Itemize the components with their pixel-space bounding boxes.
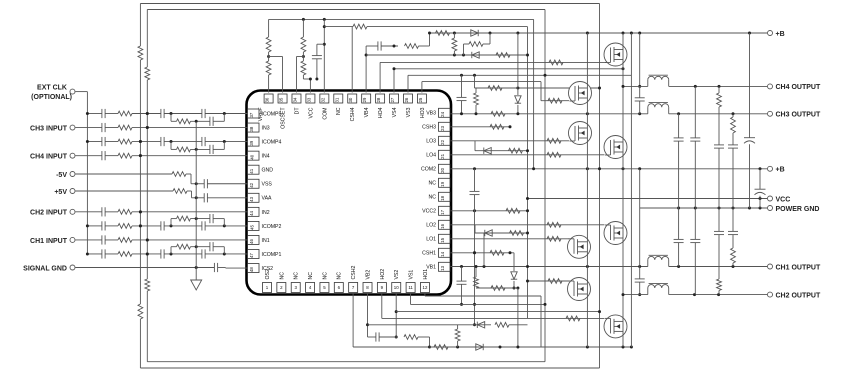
svg-text:20: 20 xyxy=(440,167,445,172)
svg-text:NC: NC xyxy=(429,195,437,201)
svg-text:CSH1: CSH1 xyxy=(422,251,436,257)
svg-text:45: 45 xyxy=(249,225,254,230)
svg-text:29: 29 xyxy=(362,97,367,102)
svg-text:33: 33 xyxy=(306,97,311,102)
svg-text:LO3: LO3 xyxy=(426,139,436,145)
svg-text:38: 38 xyxy=(249,126,254,131)
svg-text:CSH2: CSH2 xyxy=(351,266,357,280)
svg-text:ICS2: ICS2 xyxy=(262,266,274,272)
svg-text:CSH3: CSH3 xyxy=(422,125,436,131)
svg-text:+B: +B xyxy=(776,167,785,174)
svg-text:VB3: VB3 xyxy=(426,111,436,117)
svg-text:VCC2: VCC2 xyxy=(422,209,436,215)
svg-text:IN3: IN3 xyxy=(262,125,270,131)
svg-text:IN2: IN2 xyxy=(262,210,270,216)
svg-text:VCC: VCC xyxy=(308,107,314,118)
svg-text:17: 17 xyxy=(440,209,445,214)
svg-text:34: 34 xyxy=(292,97,297,102)
svg-text:(OPTIONAL): (OPTIONAL) xyxy=(31,94,72,101)
svg-text:24: 24 xyxy=(440,111,445,116)
svg-text:35: 35 xyxy=(279,97,284,102)
svg-text:COM2: COM2 xyxy=(421,167,436,173)
svg-text:ICOMP5: ICOMP5 xyxy=(262,111,282,117)
svg-text:23: 23 xyxy=(440,125,445,130)
svg-text:CH4 OUTPUT: CH4 OUTPUT xyxy=(776,84,821,91)
svg-text:42: 42 xyxy=(249,182,254,187)
svg-text:47: 47 xyxy=(249,253,254,258)
svg-text:31: 31 xyxy=(334,97,339,102)
svg-text:40: 40 xyxy=(249,154,254,159)
svg-text:12: 12 xyxy=(423,285,428,290)
svg-text:CH4 INPUT: CH4 INPUT xyxy=(30,153,68,160)
svg-text:NC: NC xyxy=(429,181,437,187)
svg-text:25: 25 xyxy=(418,97,423,102)
svg-text:COM: COM xyxy=(322,108,328,120)
svg-text:VCC: VCC xyxy=(776,196,791,203)
svg-text:VS3: VS3 xyxy=(406,107,412,117)
svg-text:19: 19 xyxy=(440,181,445,186)
svg-text:21: 21 xyxy=(440,153,445,158)
svg-text:VS4: VS4 xyxy=(392,107,398,117)
svg-text:37: 37 xyxy=(249,112,254,117)
svg-text:CH3 INPUT: CH3 INPUT xyxy=(30,125,68,132)
svg-text:11: 11 xyxy=(408,285,413,290)
svg-text:30: 30 xyxy=(348,97,353,102)
svg-text:+5V: +5V xyxy=(54,189,67,196)
svg-text:CH2 OUTPUT: CH2 OUTPUT xyxy=(776,292,821,299)
svg-text:13: 13 xyxy=(440,265,445,270)
svg-text:32: 32 xyxy=(320,97,325,102)
svg-text:HO4: HO4 xyxy=(378,107,384,118)
svg-text:36: 36 xyxy=(265,97,270,102)
svg-text:27: 27 xyxy=(390,97,395,102)
svg-text:ICOMP2: ICOMP2 xyxy=(262,224,282,230)
svg-text:ICOMP1: ICOMP1 xyxy=(262,252,282,258)
svg-text:IN4: IN4 xyxy=(262,154,270,160)
svg-text:HO3: HO3 xyxy=(420,107,426,118)
svg-text:GND: GND xyxy=(262,168,274,174)
svg-text:LO1: LO1 xyxy=(426,237,436,243)
svg-text:41: 41 xyxy=(249,168,254,173)
svg-text:VS1: VS1 xyxy=(409,270,415,280)
svg-text:18: 18 xyxy=(440,195,445,200)
svg-text:48: 48 xyxy=(249,267,254,272)
svg-text:VS2: VS2 xyxy=(394,270,400,280)
svg-text:16: 16 xyxy=(440,223,445,228)
svg-text:LO2: LO2 xyxy=(426,223,436,229)
svg-text:43: 43 xyxy=(249,196,254,201)
svg-text:46: 46 xyxy=(249,239,254,244)
svg-text:NC: NC xyxy=(322,272,328,280)
svg-text:CH2 INPUT: CH2 INPUT xyxy=(30,210,68,217)
svg-text:10: 10 xyxy=(394,285,399,290)
svg-text:SIGNAL GND: SIGNAL GND xyxy=(23,265,67,272)
svg-text:28: 28 xyxy=(376,97,381,102)
svg-text:-5V: -5V xyxy=(56,172,67,179)
svg-text:NC: NC xyxy=(308,272,314,280)
svg-text:VB1: VB1 xyxy=(426,265,436,271)
svg-text:HO2: HO2 xyxy=(380,269,386,280)
svg-text:OSCSET: OSCSET xyxy=(280,107,286,129)
svg-text:CH1 OUTPUT: CH1 OUTPUT xyxy=(776,264,821,271)
svg-text:CH1 INPUT: CH1 INPUT xyxy=(30,238,68,245)
svg-text:VB2: VB2 xyxy=(365,270,371,280)
svg-text:VAA: VAA xyxy=(262,196,273,202)
svg-text:NC: NC xyxy=(337,272,343,280)
svg-text:44: 44 xyxy=(249,210,254,215)
svg-text:LO4: LO4 xyxy=(426,153,436,159)
svg-text:NC: NC xyxy=(294,272,300,280)
svg-text:22: 22 xyxy=(440,139,445,144)
svg-text:NC: NC xyxy=(279,272,285,280)
svg-text:EXT CLK: EXT CLK xyxy=(37,84,67,91)
svg-text:CSH4: CSH4 xyxy=(350,107,356,121)
svg-text:IN1: IN1 xyxy=(262,238,270,244)
svg-text:+B: +B xyxy=(776,31,785,38)
svg-text:39: 39 xyxy=(249,140,254,145)
svg-text:26: 26 xyxy=(404,97,409,102)
svg-text:14: 14 xyxy=(440,251,445,256)
svg-text:ICOMP4: ICOMP4 xyxy=(262,140,282,146)
svg-text:NC: NC xyxy=(336,107,342,115)
svg-text:DT: DT xyxy=(294,107,300,115)
svg-text:VSS: VSS xyxy=(262,182,273,188)
svg-text:CH3 OUTPUT: CH3 OUTPUT xyxy=(776,112,821,119)
svg-text:15: 15 xyxy=(440,237,445,242)
svg-text:VB4: VB4 xyxy=(364,107,370,117)
svg-text:POWER GND: POWER GND xyxy=(776,206,820,213)
